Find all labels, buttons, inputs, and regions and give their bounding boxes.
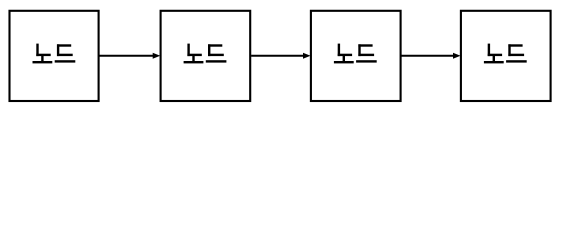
- node box 1: [10, 11, 99, 101]
- label 노드 (box 1): [33, 44, 76, 64]
- node box 3: [311, 11, 401, 101]
- node box 2: [161, 11, 251, 101]
- label 노드 (box 4): [484, 44, 527, 64]
- arrow 1 (box1 to box2): [100, 53, 161, 59]
- node box 4: [461, 11, 551, 101]
- label 노드 (box 2): [184, 44, 227, 64]
- arrow 2 (box2 to box3): [251, 53, 310, 59]
- label 노드 (box 3): [334, 44, 377, 64]
- arrow 3 (box3 to box4): [402, 53, 461, 59]
